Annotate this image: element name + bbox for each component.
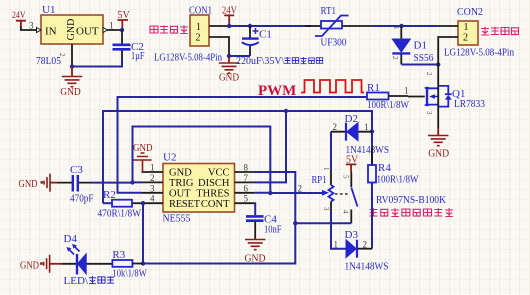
CON1 pin1 wire	[209, 25, 229, 27]
svg-text:OUT: OUT	[169, 188, 191, 199]
svg-text:1: 1	[109, 20, 114, 30]
svg-text:THRES: THRES	[196, 188, 229, 199]
svg-text:2: 2	[333, 122, 338, 132]
svg-text:RP1: RP1	[312, 174, 327, 186]
node dot CON1 pin2/C1	[227, 54, 231, 58]
wire CONT to C4	[254, 203, 255, 215]
node dot drain rail	[436, 62, 440, 66]
svg-text:1: 1	[404, 86, 409, 96]
svg-text:2: 2	[196, 33, 201, 44]
pin decorations U1	[37, 28, 108, 33]
svg-text:5: 5	[342, 175, 350, 179]
svg-text:D1: D1	[414, 40, 427, 52]
wire D1 bottom to drain rail	[402, 64, 439, 66]
power port 5V (at U1 out)	[118, 20, 129, 30]
svg-text:GND: GND	[66, 19, 77, 41]
svg-text:2: 2	[391, 56, 399, 60]
svg-text:RT1: RT1	[321, 5, 337, 17]
svg-text:CONT: CONT	[201, 199, 230, 210]
svg-text:2: 2	[463, 33, 468, 44]
svg-text:GND: GND	[60, 86, 81, 98]
U2 pin lines	[142, 172, 255, 203]
ground under C4	[245, 240, 265, 250]
svg-text:GND: GND	[219, 72, 239, 84]
svg-text:3: 3	[322, 207, 330, 211]
svg-text:5V: 5V	[346, 155, 359, 166]
svg-text:GND: GND	[20, 261, 39, 272]
node dot at U1 gnd	[70, 64, 74, 68]
svg-text:3: 3	[425, 111, 433, 115]
switch in RP1	[335, 173, 358, 224]
ground under U1	[62, 67, 82, 87]
node dot D1 top	[399, 24, 403, 28]
svg-text:GND: GND	[19, 179, 38, 190]
svg-text:DISCH: DISCH	[198, 178, 230, 189]
diode D2	[331, 123, 372, 141]
wire C1 bottom to gnd	[229, 55, 250, 57]
svg-text:470pF: 470pF	[70, 193, 94, 205]
svg-text:CON1: CON1	[189, 5, 212, 17]
svg-text:4: 4	[342, 210, 350, 214]
power port 24V (left)	[16, 21, 26, 27]
svg-text:GND: GND	[428, 148, 449, 160]
svg-text:2: 2	[425, 72, 433, 76]
svg-text:3: 3	[150, 183, 155, 193]
svg-text:D3: D3	[345, 229, 359, 241]
connector CON2 body	[458, 21, 478, 45]
svg-text:1: 1	[322, 167, 330, 171]
svg-text:1: 1	[392, 26, 400, 30]
wire VCC net: pin8 right, down, bottom rail, up to R2/RESET	[143, 172, 295, 264]
svg-text:D4: D4	[64, 233, 78, 245]
svg-text:R4: R4	[378, 162, 391, 174]
wire 24V rail to RT1	[229, 25, 311, 27]
annotation 电源输入	[150, 25, 188, 33]
svg-text:C1: C1	[259, 29, 272, 41]
transistor Q1 LR7833	[408, 72, 452, 128]
wire R2 to RESET	[133, 202, 142, 204]
annotation 带开关旋钮电位器	[370, 208, 454, 216]
wire switch pin4 to VCC rail	[295, 222, 351, 224]
svg-text:OUT: OUT	[76, 26, 99, 38]
svg-text:1: 1	[334, 240, 339, 250]
capacitor C3	[57, 175, 133, 192]
svg-text:78L05: 78L05	[36, 55, 61, 67]
svg-text:RESET: RESET	[169, 199, 201, 210]
svg-text:470R\1/8W: 470R\1/8W	[98, 209, 142, 220]
svg-text:5: 5	[244, 194, 249, 204]
wire RT1 to CON2	[372, 25, 438, 27]
svg-text:CON2: CON2	[457, 6, 483, 18]
svg-text:1: 1	[464, 22, 469, 33]
svg-text:1: 1	[196, 22, 201, 33]
node dot THRES	[268, 191, 272, 195]
wire D2 cathode down to RP1 pin1	[330, 132, 332, 170]
svg-text:GND: GND	[245, 253, 266, 265]
pin 1 of U1 to 5V node	[103, 29, 122, 31]
svg-text:1N4148WS: 1N4148WS	[345, 262, 389, 273]
svg-text:6: 6	[244, 183, 249, 193]
svg-text:NE555: NE555	[163, 213, 191, 225]
CON2 pin1 wire	[438, 25, 458, 27]
wire OUT net to R1	[118, 97, 368, 193]
node dot at 5V/C2	[120, 28, 124, 32]
node dot CON1 pin1	[227, 24, 231, 28]
diode D1 SS56	[391, 26, 410, 65]
connector CON1 body	[190, 15, 209, 46]
svg-text:3: 3	[29, 21, 34, 31]
capacitor C4	[246, 216, 264, 239]
svg-text:RV097NS-B100K: RV097NS-B100K	[376, 194, 446, 206]
svg-text:10k\1/8W: 10k\1/8W	[112, 269, 147, 280]
wire RP1 pin3 down to D3 anode	[331, 212, 346, 249]
wire DISCH net: pin7 right, up, top rail	[103, 111, 286, 203]
svg-text:GND: GND	[133, 143, 153, 154]
wire 24V to U1 pin3	[21, 26, 41, 30]
svg-text:5V: 5V	[118, 10, 131, 21]
timer U2 NE555 body	[163, 164, 235, 213]
svg-text:2: 2	[58, 53, 66, 57]
svg-text:R1: R1	[367, 82, 380, 94]
svg-text:2: 2	[150, 173, 155, 183]
resistor R2	[103, 200, 132, 207]
CON1 pin2 wire down to gnd	[209, 37, 229, 56]
svg-text:1µF: 1µF	[131, 50, 145, 62]
svg-text:4: 4	[150, 194, 155, 204]
svg-text:7: 7	[244, 173, 249, 183]
svg-text:SS56: SS56	[414, 52, 434, 64]
svg-text:LG128V-5.08-4Pin: LG128V-5.08-4Pin	[444, 47, 514, 59]
resistor R3	[112, 260, 143, 267]
U2 pin numbers	[150, 163, 249, 204]
capacitor C1 polarized	[242, 26, 259, 56]
svg-text:8: 8	[244, 163, 249, 173]
potentiometer RP1	[322, 167, 334, 212]
ground left at LED	[40, 255, 62, 273]
svg-text:VCC: VCC	[208, 168, 230, 179]
svg-text:100R\1/8W: 100R\1/8W	[367, 100, 409, 111]
wire DISCH rail right end down to D2/R4	[286, 111, 372, 165]
ground under CON1	[219, 56, 239, 73]
diode D3	[346, 240, 372, 258]
svg-text:GND: GND	[169, 168, 192, 179]
wire THRES to RP1 wiper	[254, 192, 324, 194]
svg-text:R2: R2	[103, 189, 116, 201]
svg-text:D2: D2	[345, 113, 358, 125]
svg-text:2: 2	[298, 184, 303, 194]
node dot D2 anode	[370, 129, 374, 133]
svg-text:2: 2	[363, 240, 368, 250]
svg-text:LR7833: LR7833	[454, 98, 485, 110]
annotation square wave	[301, 80, 364, 93]
node dot TRIG/C3	[130, 180, 134, 184]
svg-text:U1: U1	[42, 4, 55, 16]
ground under Q1	[428, 128, 448, 146]
svg-text:1: 1	[364, 122, 369, 132]
svg-text:TRIG: TRIG	[169, 178, 194, 189]
regulator U1 78L05 body	[41, 15, 103, 44]
resistor R4	[371, 147, 373, 197]
U1 GND pin down	[71, 44, 73, 67]
svg-text:IN: IN	[45, 26, 57, 38]
svg-text:24V: 24V	[12, 11, 26, 21]
LED D4	[62, 244, 112, 275]
wire R4 bottom down to D3 cathode	[371, 183, 373, 249]
fuse RT1	[305, 16, 372, 37]
svg-text:R3: R3	[112, 249, 125, 261]
resistor R1	[367, 93, 408, 100]
CON2 pin2 wire to Q1 drain	[438, 37, 458, 75]
node dot R2/RESET	[141, 201, 145, 205]
ground at U2 pin1 (inverted)	[134, 153, 152, 172]
ground left at C3	[41, 174, 58, 192]
svg-text:UF300: UF300	[321, 37, 347, 49]
svg-text:U2: U2	[163, 152, 176, 164]
svg-text:10nF: 10nF	[264, 224, 282, 236]
svg-text:1: 1	[150, 163, 155, 173]
power port 24V (CON1)	[224, 15, 234, 26]
svg-text:LED\: LED\	[64, 276, 89, 287]
capacitor C2	[113, 30, 131, 58]
node dot switch feed	[293, 221, 297, 225]
node dot C1 top	[248, 24, 252, 28]
wire C2 bottom to U1 gnd	[72, 58, 122, 67]
svg-text:C3: C3	[70, 164, 83, 176]
node dot R3 join	[141, 261, 145, 265]
power port 5V (switch)	[346, 164, 357, 172]
node dot DISCH rail	[284, 109, 288, 113]
svg-text:220uF\35V\: 220uF\35V\	[236, 56, 285, 67]
svg-text:100R\1/8W: 100R\1/8W	[377, 175, 419, 186]
annotation 接入电机	[481, 27, 519, 35]
wire TRIG net: pin2 left, up, right, down to THRES	[133, 127, 271, 194]
svg-text:LG128V-5.08-4Pin: LG128V-5.08-4Pin	[154, 52, 222, 64]
svg-text:24V: 24V	[222, 6, 238, 17]
